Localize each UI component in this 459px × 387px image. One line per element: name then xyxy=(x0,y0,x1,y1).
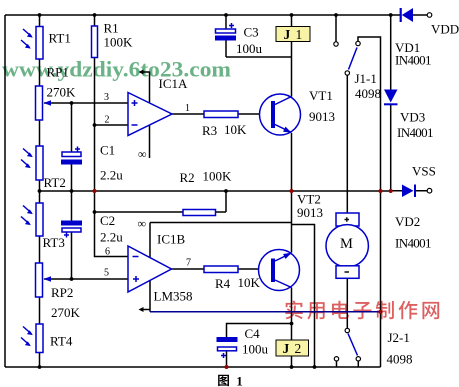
svg-text:9013: 9013 xyxy=(309,109,335,124)
svg-text:IC1A: IC1A xyxy=(159,76,189,91)
wire IC1A power stubs xyxy=(141,72,150,159)
pin number 5 xyxy=(104,268,109,279)
wire top rail xyxy=(5,14,427,16)
light arrows RT3 xyxy=(21,206,33,226)
motor minus sign xyxy=(345,271,350,273)
watermark red 实用电子制作网 xyxy=(285,301,439,320)
svg-text:∞: ∞ xyxy=(138,147,147,161)
svg-text:RP2: RP2 xyxy=(51,285,73,300)
svg-text:RP1: RP1 xyxy=(47,65,69,80)
svg-text:100u: 100u xyxy=(242,342,269,357)
op-amp U1 IC1A triangle xyxy=(128,93,172,136)
capacitor C3 plus sign xyxy=(229,23,234,28)
transistor VT1 emitter arrow xyxy=(283,127,291,133)
watermark green www.ydzdiy.6to23.com xyxy=(2,57,231,82)
svg-text:100K: 100K xyxy=(203,169,233,184)
photoresistor RT1 xyxy=(36,27,43,60)
wire pin3 xyxy=(44,102,128,104)
svg-text:VT1: VT1 xyxy=(309,88,333,103)
svg-text:RT2: RT2 xyxy=(44,175,66,190)
svg-text:RT4: RT4 xyxy=(50,334,73,349)
wire motor column xyxy=(346,76,348,329)
wire left column segments xyxy=(39,15,41,367)
label R1 xyxy=(104,21,134,50)
label VSS xyxy=(412,164,436,179)
potentiometer RP2 wiper arrow xyxy=(44,276,52,282)
svg-text:R1: R1 xyxy=(104,21,119,36)
label VD2 IN4001 xyxy=(395,214,432,251)
svg-text:R3: R3 xyxy=(202,123,217,138)
transistor VT1 emitter line xyxy=(275,125,292,133)
wire mid horizontal rail xyxy=(40,190,391,192)
svg-text:270K: 270K xyxy=(51,305,81,320)
wire left border xyxy=(4,15,6,367)
svg-text:J1-1: J1-1 xyxy=(355,71,377,86)
wire VD2 row xyxy=(391,190,427,192)
capacitor C1 plus sign xyxy=(75,147,80,152)
svg-text:10K: 10K xyxy=(238,275,261,290)
IC1B pin4 arrow head xyxy=(139,307,144,312)
motor M minus box xyxy=(336,266,359,279)
wire J2-1 throw stubs xyxy=(337,361,359,367)
transistor VT2 emitter line xyxy=(275,253,292,261)
wire J1-1 stub from top rail xyxy=(335,15,337,42)
svg-text:100u: 100u xyxy=(236,41,263,56)
junction dots black top rail xyxy=(38,13,393,17)
capacitor C4 negative plate xyxy=(217,337,238,342)
light arrows RT1 xyxy=(21,29,33,49)
capacitor C2 plus sign xyxy=(64,233,69,238)
capacitor C1 negative plate xyxy=(61,160,82,165)
svg-text:IN4001: IN4001 xyxy=(395,53,432,68)
svg-text:4098: 4098 xyxy=(387,352,413,367)
label J1-1 4098 xyxy=(355,71,382,101)
terminal VDD circle xyxy=(427,13,432,18)
svg-text:RT3: RT3 xyxy=(43,235,65,250)
svg-text:1: 1 xyxy=(185,103,190,114)
svg-text:IN4001: IN4001 xyxy=(397,125,434,140)
junction dots red xyxy=(93,189,393,369)
pin number 6 xyxy=(105,247,110,258)
svg-text:5: 5 xyxy=(104,268,109,279)
label RT1 xyxy=(49,31,71,46)
wire IC1B pin4 arrow stub xyxy=(141,309,150,311)
terminal VSS circle xyxy=(427,188,432,193)
svg-text:J2-1: J2-1 xyxy=(388,330,410,345)
svg-text:R2: R2 xyxy=(180,170,195,185)
wire C1 C2 column xyxy=(71,103,73,279)
diode VD1 xyxy=(400,8,413,22)
svg-text:100K: 100K xyxy=(104,35,134,50)
photoresistor RT2 xyxy=(36,146,43,180)
capacitor C4 plus sign xyxy=(221,353,226,358)
svg-text:270K: 270K xyxy=(47,85,77,100)
diode VD3 xyxy=(384,90,398,106)
svg-text:9013: 9013 xyxy=(297,205,323,220)
pin number 1 xyxy=(185,103,190,114)
motor M plus box xyxy=(336,213,359,226)
label RT4 xyxy=(50,334,73,349)
label RP2 xyxy=(51,285,81,320)
transistor VT1 base bar xyxy=(271,101,275,128)
svg-text:C3: C3 xyxy=(244,25,259,40)
wire right branch to J1-1 throw B xyxy=(358,37,381,367)
label RP1 xyxy=(47,65,77,100)
capacitor C3 negative plate xyxy=(215,36,236,41)
label C4 xyxy=(242,326,269,357)
svg-text:www.ydzdiy.6to23.com: www.ydzdiy.6to23.com xyxy=(2,57,231,82)
wire C4 connections xyxy=(227,324,292,368)
photoresistor RT3 xyxy=(36,203,43,236)
motor plus sign xyxy=(345,217,350,222)
label C1 xyxy=(100,143,123,183)
resistor R4 xyxy=(204,266,238,273)
label C2 xyxy=(100,213,123,245)
transistor Q1 VT1 circle xyxy=(260,94,301,135)
diode VD2 xyxy=(402,185,416,198)
svg-text:10K: 10K xyxy=(224,122,247,137)
resistor R2 xyxy=(183,210,216,216)
label C3 xyxy=(236,25,263,57)
caption 图 1 xyxy=(218,374,243,387)
svg-text:C1: C1 xyxy=(100,143,115,158)
svg-text:2: 2 xyxy=(105,115,110,126)
potentiometer RP1 body xyxy=(36,86,43,120)
label R3 10K xyxy=(202,122,247,138)
wire pin2 xyxy=(95,124,129,126)
svg-text:IC1B: IC1B xyxy=(157,232,186,247)
junction dots black mid xyxy=(38,101,294,325)
potentiometer RP2 body xyxy=(36,263,43,297)
capacitor C1 positive plate xyxy=(62,152,81,157)
light arrows RT4 xyxy=(21,327,33,347)
label J2-1 4098 xyxy=(387,330,413,367)
svg-text:2.2u: 2.2u xyxy=(100,168,123,183)
svg-text:∞: ∞ xyxy=(138,217,147,231)
svg-text:IN4001: IN4001 xyxy=(395,236,432,251)
svg-text:VD3: VD3 xyxy=(400,110,425,125)
label LM358 xyxy=(154,289,193,304)
transistor VT1 collector line xyxy=(275,97,292,105)
svg-text:VSS: VSS xyxy=(412,164,436,179)
svg-text:LM358: LM358 xyxy=(154,289,193,304)
transistor Q2 VT2 circle xyxy=(259,250,300,291)
relay contact J1-1 arm xyxy=(349,48,358,70)
label R2 100K xyxy=(180,169,233,186)
label VT2 9013 xyxy=(297,192,323,221)
label R4 10K xyxy=(215,275,261,291)
IC1A power arrow head xyxy=(139,70,144,75)
wire IC1B pin4 VSS (navy) xyxy=(150,311,381,313)
transistor VT2 base bar xyxy=(271,259,275,283)
label VDD xyxy=(431,22,459,37)
label VT1 9013 xyxy=(309,88,335,124)
wire VD1 VD3 column xyxy=(390,15,392,191)
switch J2-1 contact circles xyxy=(334,328,360,361)
wire pin5 xyxy=(44,278,128,280)
relay contact J2-1 arm xyxy=(348,334,358,356)
wire R1 feedback column xyxy=(95,15,184,257)
svg-text:VDD: VDD xyxy=(431,22,459,37)
resistor R1 xyxy=(92,26,98,58)
photoresistor RT4 xyxy=(36,324,43,353)
svg-text:R4: R4 xyxy=(215,276,231,291)
svg-text:C2: C2 xyxy=(100,213,115,228)
transistor VT2 collector line xyxy=(275,280,292,288)
svg-text:4098: 4098 xyxy=(355,86,381,101)
motor M circle xyxy=(326,225,368,267)
pin number 7 xyxy=(186,258,191,269)
wire VT2 collector jog rail xyxy=(292,225,315,368)
resistor R3 xyxy=(204,111,238,118)
capacitor C3 positive plate xyxy=(216,29,236,33)
label RT2 xyxy=(44,175,66,190)
wire IC1A output to R3 to VT1 xyxy=(172,113,271,115)
switch J1-1 contact circles xyxy=(334,41,360,75)
wire R2 jog xyxy=(216,191,227,212)
op-amp IC1B package box xyxy=(150,223,292,312)
op-amp IC1B plus minus xyxy=(133,257,140,283)
label IC1B xyxy=(157,232,186,247)
op-amp infinity symbols xyxy=(138,147,147,231)
op-amp IC1A plus minus xyxy=(132,100,138,125)
label motor M xyxy=(340,236,353,252)
svg-text:M: M xyxy=(340,236,353,252)
svg-text:7: 7 xyxy=(186,258,191,269)
label IC1A xyxy=(159,76,189,91)
light arrows RT2 xyxy=(21,149,33,169)
pin number 3 xyxy=(104,92,109,103)
svg-text:C4: C4 xyxy=(245,326,261,341)
svg-text:VD2: VD2 xyxy=(395,214,420,229)
svg-text:6: 6 xyxy=(105,247,110,258)
svg-text:1: 1 xyxy=(236,374,243,387)
capacitor C4 positive plate xyxy=(218,347,237,351)
relay label J1 yellow box xyxy=(276,27,310,43)
label VD1 IN4001 xyxy=(395,40,432,68)
label VD3 IN4001 xyxy=(397,110,434,141)
potentiometer RP1 wiper arrow xyxy=(44,100,52,106)
wire VT1 VT2 vertical chain xyxy=(291,15,293,367)
svg-text:3: 3 xyxy=(104,92,109,103)
wire C3 connections xyxy=(226,15,292,57)
junction dots black bottom rail xyxy=(38,365,317,369)
svg-text:RT1: RT1 xyxy=(49,31,71,46)
svg-text:2.2u: 2.2u xyxy=(100,230,123,245)
relay label J2 yellow box xyxy=(276,340,309,356)
wire bottom rail xyxy=(5,366,381,368)
pin number 2 xyxy=(105,115,110,126)
wire pin7 to R4 to VT2 xyxy=(172,268,272,270)
capacitor C2 negative plate xyxy=(61,221,82,226)
op-amp U2 IC1B triangle xyxy=(128,246,172,292)
label RT3 xyxy=(43,235,65,250)
capacitor C2 positive plate xyxy=(62,228,81,232)
transistor VT2 emitter arrow xyxy=(283,253,291,259)
